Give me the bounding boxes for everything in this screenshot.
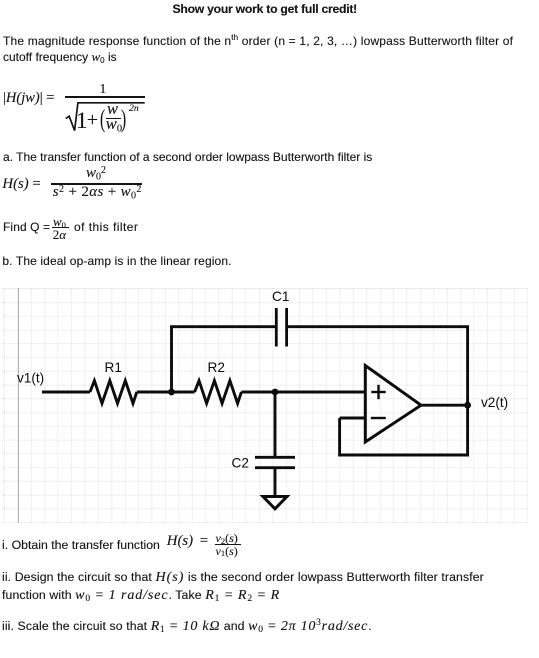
capacitor C1 bbox=[276, 308, 286, 347]
node B junction dot bbox=[272, 389, 279, 396]
line i. bbox=[2, 539, 160, 552]
line b. bbox=[2, 255, 231, 268]
wire node B down to C2 bbox=[274, 392, 277, 457]
wire R2 to node B bbox=[241, 391, 275, 394]
paragraph 1 bbox=[3, 35, 513, 48]
resistor R2 bbox=[195, 381, 242, 404]
title bbox=[173, 3, 357, 16]
wire feedback stub to - input bbox=[340, 417, 366, 420]
wire op-amp output bbox=[421, 404, 468, 407]
wire C2 to ground bbox=[274, 468, 277, 495]
op-amp + pin mark bbox=[371, 385, 385, 399]
wire node A to R2 bbox=[172, 391, 195, 394]
line iii. bbox=[2, 620, 372, 633]
wire node A up to C1 bbox=[172, 327, 277, 392]
Find Q line bbox=[3, 221, 50, 234]
node A junction dot bbox=[168, 389, 175, 396]
resistor R1 bbox=[90, 381, 137, 404]
line a. bbox=[3, 151, 372, 164]
svg-text:v1(t): v1(t) bbox=[17, 371, 44, 386]
svg-text:R2: R2 bbox=[208, 360, 225, 375]
wire v1 to R1 bbox=[42, 391, 90, 394]
wire R1 to node A bbox=[137, 391, 172, 394]
wire feedback loop bbox=[340, 405, 468, 455]
op-amp - pin mark bbox=[371, 417, 386, 419]
svg-text:v2(t): v2(t) bbox=[481, 395, 508, 410]
op-amp U1 bbox=[365, 366, 421, 443]
formula |H(jw)| bbox=[3, 91, 54, 106]
capacitor C2 bbox=[255, 457, 295, 467]
radical bbox=[63, 100, 147, 134]
svg-text:R1: R1 bbox=[105, 360, 122, 375]
line ii. bbox=[2, 569, 484, 605]
ground bbox=[263, 497, 287, 509]
node output junction dot bbox=[464, 402, 471, 409]
schematic canvas with grid bbox=[2, 288, 528, 523]
wire C1 to output column bbox=[287, 327, 468, 405]
formula H(s) bbox=[2, 177, 40, 192]
svg-text:C2: C2 bbox=[232, 456, 249, 471]
wire node B to op-amp + input bbox=[275, 391, 365, 394]
svg-text:C1: C1 bbox=[272, 289, 289, 304]
